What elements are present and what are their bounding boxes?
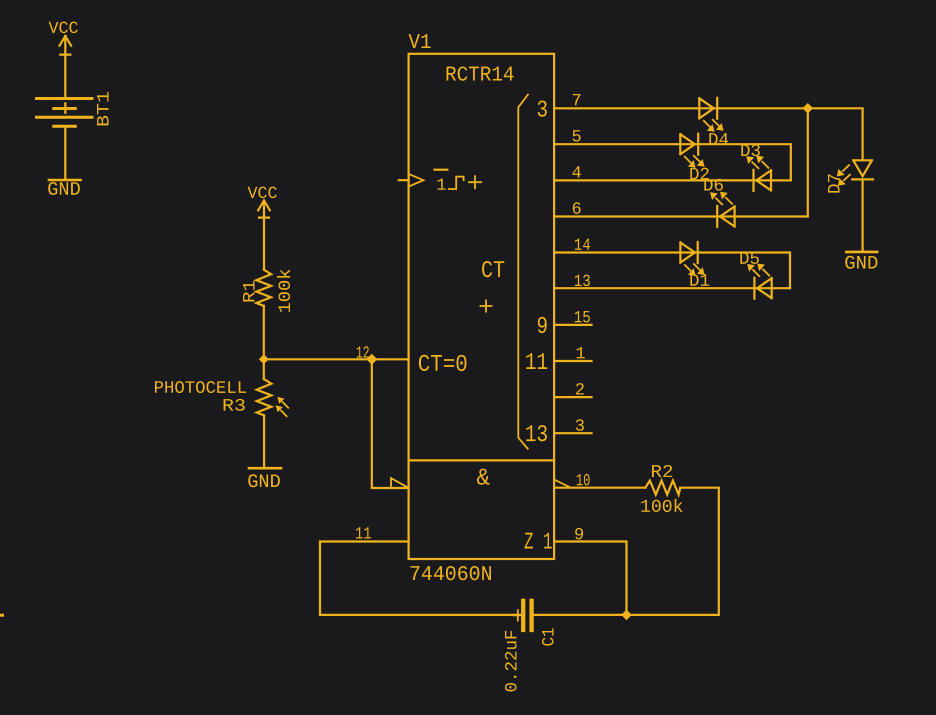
capacitor C1 [503, 601, 560, 693]
LED D6 [703, 177, 735, 227]
clock qualifier pulse symbol [449, 177, 464, 189]
wire R3 to ground [263, 415, 265, 467]
svg-text:&: & [476, 466, 490, 493]
svg-text:0.22uF: 0.22uF [503, 630, 523, 693]
wire pin10 to R2 [554, 487, 645, 489]
svg-text:1: 1 [436, 177, 446, 196]
svg-text:R2: R2 [650, 463, 673, 483]
wire C1 to junction [534, 614, 627, 616]
op IC U1/V1 744060N box [409, 54, 554, 559]
clock qualifier 1-bar [435, 169, 448, 171]
CT plus [481, 300, 492, 311]
stub pin1 [554, 360, 591, 362]
wire fragment at left edge [0, 614, 3, 617]
wire battery to ground [64, 126, 66, 179]
LED D5 [739, 250, 772, 299]
VCC supply symbol (top-left) [48, 20, 78, 99]
junction dot pin7/pin6 net [803, 103, 814, 114]
svg-text:100k: 100k [640, 498, 684, 518]
svg-text:D5: D5 [739, 250, 760, 270]
svg-text:GND: GND [47, 179, 81, 201]
svg-text:BT1: BT1 [95, 91, 115, 127]
LED D4 [699, 98, 729, 151]
stub pin3 [554, 432, 591, 434]
resistor R1 [241, 269, 297, 314]
LED D2 [680, 134, 710, 186]
svg-text:D3: D3 [740, 142, 761, 162]
svg-text:12: 12 [356, 345, 370, 364]
stub pin15 [554, 324, 591, 326]
clock input dynamic triangle [409, 174, 424, 187]
svg-text:V1: V1 [408, 32, 431, 55]
wire R2 to corner down to bottom net [627, 488, 719, 615]
wire pin6 through D6 up to pin7 net [554, 108, 808, 216]
svg-text:100k: 100k [276, 269, 296, 314]
node B junction dot (branch to clock) [366, 354, 377, 365]
wire pin7 net to D7 corner [554, 108, 863, 160]
svg-text:D6: D6 [703, 177, 724, 197]
svg-text:GND: GND [247, 471, 281, 493]
clock qualifier plus [469, 176, 481, 188]
svg-text:3: 3 [536, 97, 548, 124]
svg-text:VCC: VCC [48, 20, 78, 39]
LED D1 [680, 242, 710, 292]
svg-text:D7: D7 [826, 173, 846, 194]
pin10 output triangle [554, 480, 570, 488]
svg-text:11: 11 [525, 350, 549, 377]
svg-text:9: 9 [536, 314, 548, 341]
LED D3 [740, 142, 771, 191]
svg-text:GND: GND [844, 252, 878, 274]
wire R1 to node A and photocell [263, 306, 265, 379]
CT output brace [518, 95, 528, 449]
oscillator clock triangle (left, bottom section) [391, 478, 409, 488]
wire pin11 around to C1 [320, 542, 521, 615]
battery BT1 [37, 91, 115, 127]
LED D7 [826, 160, 874, 194]
VCC supply symbol (above R1) [247, 185, 277, 270]
svg-text:R3: R3 [222, 397, 246, 417]
svg-text:13: 13 [525, 422, 549, 449]
IC section divider [409, 459, 554, 461]
svg-text:744060N: 744060N [409, 564, 493, 587]
wire pin14 through D1 to corner down [554, 253, 790, 289]
stub pin2 [554, 396, 591, 398]
wire pin9 down to bottom net [554, 542, 626, 615]
ground GND (below BT1) [47, 179, 81, 201]
wire node A to IC pin 12 [264, 358, 409, 360]
photocell R3 [222, 379, 288, 416]
wire pin5 through D2 to corner down [554, 144, 791, 180]
wire D7 to ground [861, 179, 863, 251]
wire pin13 through D5 [554, 287, 790, 289]
wire node B down to oscillator clock input [372, 359, 409, 488]
ground GND (below D7) [844, 252, 878, 275]
wire pin4 through D3 [554, 179, 791, 181]
svg-text:R1: R1 [241, 280, 261, 303]
junction dot bottom net [621, 610, 632, 621]
svg-text:CT=0: CT=0 [418, 352, 468, 379]
svg-text:Z 1: Z 1 [524, 530, 553, 557]
clock input pin stub (left) [399, 179, 409, 181]
resistor R2 [640, 463, 684, 518]
svg-text:D1: D1 [689, 272, 710, 292]
svg-text:CT: CT [481, 258, 505, 285]
node A junction dot [259, 354, 269, 364]
svg-text:D4: D4 [708, 131, 729, 151]
svg-text:RCTR14: RCTR14 [445, 65, 515, 88]
svg-text:C1: C1 [540, 628, 560, 647]
ground GND (below R3) [247, 468, 281, 493]
